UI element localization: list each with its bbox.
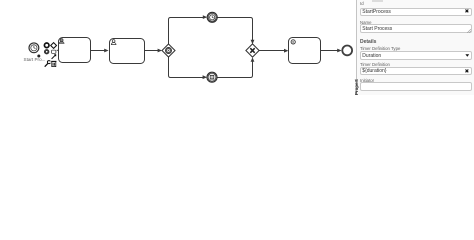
context pad: wrench icon [45,61,51,67]
arrowhead into timer event E1 [203,15,207,19]
arrowhead up into gateway G2 bottom [251,57,255,61]
vertical Properties tab [352,79,359,95]
wire timer event E1 to gateway G2 [217,18,252,43]
wire message event E2 to gateway G2 [217,59,253,78]
properties panel [356,0,474,95]
Timer Definition [360,62,390,67]
task T1 [59,38,91,63]
node dot near start event [37,55,40,58]
arrowhead into task T3 [284,49,288,53]
arrowhead into task T2 [104,49,108,53]
context pad: gateway icon [51,43,57,49]
wire task T2 to gateway G1 [145,50,161,52]
BPMN diagram canvas [0,0,357,95]
timer intermediate event E1 [207,12,217,22]
task T3 marker [291,40,295,44]
start event S1 (timer start) [29,43,39,53]
wire task T3 to end event [321,50,341,52]
arrowhead into end event [337,49,341,53]
svg-text:Properties: Properties [354,79,359,95]
tab remnant top [372,0,383,2]
message intermediate event E2 [207,72,217,82]
wire start event to task T1 (hidden under context pad) [57,49,59,51]
wire gateway G2 to task T3 [259,50,287,52]
end event [342,46,352,56]
resize handle [467,29,471,33]
Name field [360,20,371,25]
arrowhead into gateway G1 [158,49,162,53]
svg-text:Start Pro...: Start Pro... [24,57,46,62]
task T1 marker (user) [59,39,64,44]
task T2 marker (user) [111,40,116,45]
arrowhead into message event E2 [203,75,207,79]
Details heading [360,39,376,45]
wire task T1 to task T2 [91,50,108,52]
wire gateway G1 bottom branch to message event E2 [169,57,206,78]
context pad: end-event icon [44,43,49,48]
context pad: connect icon [52,54,57,59]
Initiator [360,78,374,83]
context pad: task icon [52,50,56,53]
wire gateway G1 top branch to timer event E1 [169,18,206,45]
task T2 [110,39,145,64]
context pad: trash icon [51,61,56,66]
gateway G2 (exclusive) [246,44,259,57]
Id field [360,1,364,6]
gateway G1 (event-based) [162,44,175,57]
Timer Definition Type [360,46,400,51]
task T3 [289,38,321,64]
arrowhead down into gateway G2 top [251,40,255,44]
context pad: intermediate event icon [45,50,49,54]
